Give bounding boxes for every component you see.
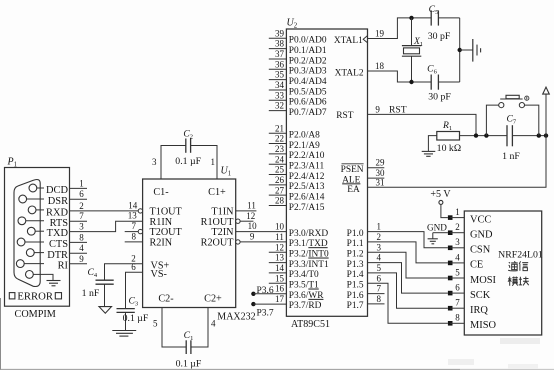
ground for R1 bbox=[422, 150, 436, 152]
DB9 pin circle right 2 bbox=[28, 206, 36, 214]
U2 pin 39 P0.0/AD0 bbox=[269, 37, 287, 39]
svg-text:RST: RST bbox=[389, 104, 407, 115]
svg-text:1: 1 bbox=[455, 207, 460, 217]
svg-text:PSEN: PSEN bbox=[341, 165, 364, 175]
svg-text:RI: RI bbox=[58, 260, 69, 271]
svg-text:8: 8 bbox=[79, 232, 84, 242]
U2 pin 34 P0.5/AD5 bbox=[269, 89, 287, 91]
svg-text:32: 32 bbox=[275, 101, 284, 111]
capacitor C3 bbox=[117, 308, 135, 310]
svg-text:P2.7/A15: P2.7/A15 bbox=[289, 203, 325, 213]
svg-text:27: 27 bbox=[275, 185, 285, 195]
svg-text:35: 35 bbox=[275, 70, 285, 80]
svg-text:39: 39 bbox=[275, 28, 285, 38]
svg-text:6: 6 bbox=[79, 189, 84, 199]
svg-text:C2-: C2- bbox=[158, 294, 174, 305]
svg-text:P1.4: P1.4 bbox=[347, 270, 364, 280]
svg-text:P3.3/INT1: P3.3/INT1 bbox=[289, 260, 329, 270]
U2 pin 21 P2.0/A8 bbox=[269, 132, 287, 134]
junction +5V rail bbox=[544, 133, 548, 137]
U2 pin 22 P2.1/A9 bbox=[269, 143, 287, 145]
NRF24L01 text kuai (Chinese) bbox=[519, 277, 529, 286]
wire P1.1 to NRF pin 4 bbox=[368, 242, 448, 263]
DB9 shell ground bbox=[44, 274, 53, 280]
svg-text:P1.3: P1.3 bbox=[347, 260, 364, 270]
svg-text:P3.1/TXD: P3.1/TXD bbox=[289, 239, 328, 249]
crystal X1 bbox=[402, 45, 421, 47]
DB9 shell bbox=[14, 179, 40, 286]
svg-text:21: 21 bbox=[275, 123, 284, 133]
svg-text:P1.6: P1.6 bbox=[347, 291, 364, 301]
svg-text:6: 6 bbox=[131, 262, 136, 272]
power +5V arrow bbox=[545, 94, 547, 136]
wire XTAL1 pin 19 to crystal bbox=[368, 18, 460, 39]
ERROR indicator right square bbox=[55, 293, 61, 299]
svg-text:P0.1/AD1: P0.1/AD1 bbox=[289, 46, 327, 56]
wire RST pin 9 to node bbox=[368, 114, 477, 135]
svg-text:CSN: CSN bbox=[470, 245, 491, 256]
U2 pin 15 P3.5 bbox=[269, 282, 287, 284]
svg-text:P2.3/A11: P2.3/A11 bbox=[289, 161, 325, 171]
U2 pin 33 P0.6/AD6 bbox=[269, 99, 287, 101]
svg-text:0.1 µF: 0.1 µF bbox=[175, 156, 201, 167]
svg-text:16: 16 bbox=[275, 284, 285, 294]
NRF pin 2 GND bbox=[448, 230, 453, 235]
node P3.6 bbox=[251, 292, 255, 296]
svg-text:GND: GND bbox=[427, 223, 447, 233]
svg-text:0.1 µF: 0.1 µF bbox=[123, 313, 149, 324]
svg-text:7: 7 bbox=[79, 211, 84, 221]
svg-text:4: 4 bbox=[377, 253, 382, 263]
svg-text:P2.2/A10: P2.2/A10 bbox=[289, 151, 325, 161]
svg-text:P2.6/A14: P2.6/A14 bbox=[289, 192, 325, 202]
U2 pin 30 ALE stub bbox=[368, 177, 385, 179]
svg-text:4: 4 bbox=[79, 243, 84, 253]
node P3.7 bbox=[251, 302, 255, 306]
wire R1 to C7 and +5V rail bbox=[460, 135, 508, 137]
U2 pin 38 P0.1/AD1 bbox=[269, 48, 287, 50]
wire R1 left lead to ground bbox=[428, 136, 436, 152]
svg-text:11: 11 bbox=[247, 200, 256, 210]
svg-text:7: 7 bbox=[132, 221, 137, 231]
svg-text:P3.6: P3.6 bbox=[257, 286, 274, 296]
svg-text:3: 3 bbox=[79, 222, 84, 232]
U1 pin 8 R2IN stub bbox=[125, 241, 143, 243]
NRF24L01 text mo (Chinese) bbox=[508, 277, 518, 286]
svg-text:CE: CE bbox=[470, 260, 483, 271]
DB9 pin circle right 4 bbox=[26, 249, 34, 257]
svg-text:38: 38 bbox=[275, 39, 285, 49]
module NRF24L01 box bbox=[464, 211, 541, 335]
wire P1.5 to NRF pin 8 bbox=[368, 283, 448, 323]
svg-text:9: 9 bbox=[375, 104, 380, 114]
svg-text:1: 1 bbox=[377, 222, 382, 232]
U2 pin 27 P2.6/A14 bbox=[269, 194, 287, 196]
U1 pin 14 T1OUT bubble bbox=[138, 209, 142, 213]
svg-text:+5 V: +5 V bbox=[430, 189, 451, 200]
junction to crystal ground bbox=[458, 48, 462, 52]
svg-text:33: 33 bbox=[275, 90, 285, 100]
wire C1 to U1 pin 4 bbox=[191, 308, 208, 348]
svg-text:4: 4 bbox=[455, 252, 460, 262]
wire RXD to T1OUT pin 14 bbox=[70, 210, 139, 212]
wire VS+ pin 2 to C4 bbox=[105, 264, 143, 280]
svg-text:P2.5/A13: P2.5/A13 bbox=[289, 182, 325, 192]
DB9 pin circle left 1 bbox=[19, 195, 27, 203]
junction bottom of X1 bbox=[409, 80, 413, 84]
U2 pin 29 PSEN stub bbox=[368, 167, 385, 169]
svg-text:P0.5/AD5: P0.5/AD5 bbox=[289, 87, 327, 97]
svg-text:P2.1/A9: P2.1/A9 bbox=[289, 141, 320, 151]
svg-text:12: 12 bbox=[275, 242, 284, 252]
svg-text:8: 8 bbox=[132, 231, 137, 241]
DB9 pin circle left 2 bbox=[18, 217, 26, 225]
svg-text:P3.0/RXD: P3.0/RXD bbox=[289, 229, 329, 239]
svg-text:6: 6 bbox=[377, 273, 382, 283]
wire U1 pin 3 to C2 bbox=[161, 146, 186, 180]
svg-text:8: 8 bbox=[377, 294, 382, 304]
U2 pin 8 P1.7 stub bbox=[368, 303, 385, 305]
svg-text:8: 8 bbox=[455, 313, 460, 323]
scan artifact bottom edge bbox=[0, 368, 460, 370]
svg-text:4: 4 bbox=[211, 319, 216, 329]
junction top of X1 bbox=[409, 16, 413, 20]
svg-text:34: 34 bbox=[275, 80, 285, 90]
svg-text:26: 26 bbox=[275, 175, 285, 185]
svg-text:10: 10 bbox=[248, 221, 258, 231]
DB9 pin circle right 3 bbox=[27, 227, 35, 235]
svg-text:P0.0/AD0: P0.0/AD0 bbox=[289, 36, 327, 46]
svg-text:ALE: ALE bbox=[342, 175, 360, 185]
svg-text:31: 31 bbox=[376, 177, 385, 187]
wire VS- pin 6 to C3 bbox=[126, 272, 143, 308]
svg-text:P0.2/AD2: P0.2/AD2 bbox=[289, 56, 327, 66]
U2 pin 26 P2.5/A13 bbox=[269, 184, 287, 186]
svg-text:XTAL1: XTAL1 bbox=[334, 36, 363, 46]
svg-text:3: 3 bbox=[377, 242, 382, 252]
IC U2 AT89C51 box bbox=[286, 29, 367, 316]
capacitor C5 bbox=[431, 10, 438, 25]
svg-text:MOSI: MOSI bbox=[470, 275, 497, 286]
U1 pin 7 T2OUT bubble and stub bbox=[138, 229, 142, 233]
NRF pin 8 MISO bbox=[448, 321, 453, 326]
svg-text:5: 5 bbox=[377, 263, 382, 273]
svg-text:MAX232: MAX232 bbox=[217, 312, 255, 323]
U2 pin 14 P3.4 bbox=[269, 272, 287, 274]
scan artifact faint smudges bottom right bbox=[500, 338, 540, 344]
junction RST/R1 bbox=[474, 133, 478, 137]
svg-text:1: 1 bbox=[211, 157, 216, 167]
svg-text:18: 18 bbox=[375, 61, 385, 71]
svg-text:VS-: VS- bbox=[151, 269, 168, 280]
svg-text:30 pF: 30 pF bbox=[428, 92, 451, 103]
wire P1.3 to NRF pin 6 bbox=[368, 263, 448, 294]
U2 pin 13 P3.3 bbox=[269, 262, 287, 264]
push button marker bbox=[525, 96, 529, 100]
svg-text:CTS: CTS bbox=[49, 239, 68, 250]
svg-text:1: 1 bbox=[79, 178, 84, 188]
svg-text:14: 14 bbox=[128, 200, 138, 210]
ground for C3 bbox=[112, 330, 136, 332]
svg-text:C1-: C1- bbox=[153, 187, 169, 198]
svg-text:P3.4/T0: P3.4/T0 bbox=[289, 270, 319, 280]
U2 pin 28 P2.7/A15 bbox=[269, 205, 287, 207]
capacitor C2 bbox=[185, 139, 187, 153]
NRF pin 3 CSN bbox=[448, 246, 453, 251]
NRF pin 7 IRQ bbox=[448, 306, 453, 311]
svg-text:30: 30 bbox=[376, 168, 386, 178]
NRF24L01 text xin (Chinese) bbox=[519, 261, 528, 270]
svg-text:P1.7: P1.7 bbox=[347, 301, 364, 311]
svg-text:P3.7/RD: P3.7/RD bbox=[289, 301, 322, 311]
svg-text:DTR: DTR bbox=[47, 250, 68, 261]
svg-text:13: 13 bbox=[275, 253, 285, 263]
scan artifact left edge bbox=[0, 298, 2, 370]
NRF pin 6 SCK bbox=[448, 291, 453, 296]
svg-text:7: 7 bbox=[455, 298, 460, 308]
svg-text:RTS: RTS bbox=[50, 218, 69, 229]
capacitor C7 bbox=[506, 125, 508, 146]
ground arrow for C4 bbox=[99, 307, 112, 314]
U2 pin 25 P2.4/A12 bbox=[269, 174, 287, 176]
svg-text:DSR: DSR bbox=[48, 196, 68, 207]
svg-text:XTAL2: XTAL2 bbox=[335, 69, 364, 79]
svg-text:1 nF: 1 nF bbox=[82, 288, 100, 299]
svg-text:12: 12 bbox=[246, 211, 255, 221]
svg-text:P0.6/AD6: P0.6/AD6 bbox=[289, 98, 327, 108]
svg-text:22: 22 bbox=[275, 134, 284, 144]
wire EA pin 31 to +5V rail bbox=[368, 136, 547, 188]
svg-text:TXD: TXD bbox=[47, 228, 69, 239]
U2 pin 12 P3.2 bbox=[269, 251, 287, 253]
wire C2 to U1 pin 1 bbox=[191, 146, 217, 180]
svg-text:2: 2 bbox=[455, 222, 460, 232]
svg-text:15: 15 bbox=[275, 273, 285, 283]
svg-text:9: 9 bbox=[250, 231, 255, 241]
capacitor C4 bbox=[96, 279, 114, 281]
svg-text:1 nF: 1 nF bbox=[502, 151, 520, 162]
svg-text:MISO: MISO bbox=[470, 320, 496, 331]
U2 pin 7 P1.6 stub bbox=[368, 293, 385, 295]
svg-text:P0.4/AD4: P0.4/AD4 bbox=[289, 77, 327, 87]
svg-text:P3.5/T1: P3.5/T1 bbox=[289, 281, 319, 291]
U2 XTAL1 clock marker bbox=[363, 36, 367, 43]
U2 pin 37 P0.2/AD2 bbox=[269, 58, 287, 60]
NRF24L01 text tong (Chinese) bbox=[508, 261, 518, 271]
svg-text:GND: GND bbox=[470, 230, 493, 241]
ERROR indicator left square bbox=[9, 293, 15, 299]
svg-text:P2.0/A8: P2.0/A8 bbox=[289, 131, 320, 141]
svg-text:P3.7: P3.7 bbox=[257, 308, 274, 318]
svg-text:25: 25 bbox=[275, 165, 285, 175]
NRF pin 4 CE bbox=[448, 261, 453, 266]
svg-text:DCD: DCD bbox=[46, 185, 68, 196]
svg-text:37: 37 bbox=[275, 49, 285, 59]
junction button right bbox=[537, 133, 541, 137]
svg-text:C2+: C2+ bbox=[204, 294, 222, 305]
svg-text:10 kΩ: 10 kΩ bbox=[437, 143, 461, 154]
svg-text:P1.0: P1.0 bbox=[347, 229, 364, 239]
wire P1.2 to NRF pin 5 bbox=[368, 252, 448, 278]
svg-text:R2IN: R2IN bbox=[150, 238, 173, 249]
connector P1 COMPIM box bbox=[5, 168, 70, 307]
svg-text:P3.2/INT0: P3.2/INT0 bbox=[289, 250, 329, 260]
svg-text:5: 5 bbox=[153, 319, 158, 329]
svg-text:0.1 µF: 0.1 µF bbox=[176, 359, 202, 370]
svg-text:EA: EA bbox=[347, 185, 360, 195]
capacitor C6 bbox=[431, 75, 438, 90]
svg-text:VCC: VCC bbox=[470, 214, 491, 225]
U2 pin 32 P0.7/AD7 bbox=[269, 110, 287, 112]
svg-text:SCK: SCK bbox=[470, 290, 491, 301]
svg-text:30 pF: 30 pF bbox=[428, 31, 451, 42]
svg-text:13: 13 bbox=[128, 211, 138, 221]
capacitor C1 bbox=[185, 340, 187, 354]
svg-text:11: 11 bbox=[275, 232, 284, 242]
svg-text:29: 29 bbox=[376, 158, 386, 168]
svg-text:23: 23 bbox=[275, 144, 285, 154]
svg-text:P1.2: P1.2 bbox=[347, 250, 364, 260]
NRF pin 5 MOSI bbox=[448, 276, 453, 281]
resistor R1 bbox=[437, 132, 460, 141]
wire TXD to R1IN pin 13 bbox=[70, 221, 143, 231]
svg-text:R1OUT: R1OUT bbox=[201, 217, 235, 228]
U2 pin 23 P2.2/A10 bbox=[269, 153, 287, 155]
svg-text:NRF24L01: NRF24L01 bbox=[498, 250, 543, 261]
svg-text:17: 17 bbox=[275, 294, 285, 304]
wire right side of crystal loop bbox=[459, 18, 461, 82]
IC U1 MAX232 box bbox=[143, 179, 236, 308]
wire P1.4 to NRF pin 7 bbox=[368, 273, 448, 308]
svg-text:R1IN: R1IN bbox=[150, 217, 173, 228]
svg-text:C1+: C1+ bbox=[208, 187, 226, 198]
svg-text:9: 9 bbox=[79, 254, 84, 264]
svg-text:14: 14 bbox=[275, 263, 285, 273]
junction button left bbox=[484, 133, 488, 137]
U1 pin 12 R1OUT bubble and stub bbox=[236, 219, 240, 223]
svg-text:6: 6 bbox=[455, 283, 460, 293]
U2 pin 36 P0.3/AD3 bbox=[269, 68, 287, 70]
svg-text:2: 2 bbox=[79, 201, 84, 211]
svg-text:7: 7 bbox=[377, 284, 382, 294]
push button S1 bbox=[486, 105, 498, 136]
svg-text:COMPIM: COMPIM bbox=[15, 309, 56, 320]
svg-text:P0.7/AD7: P0.7/AD7 bbox=[289, 108, 327, 118]
DB9 pin circle right 1 bbox=[29, 184, 37, 192]
svg-text:RST: RST bbox=[336, 111, 353, 121]
DB9 pin circle left 4 bbox=[16, 260, 24, 268]
svg-text:R2OUT: R2OUT bbox=[201, 238, 235, 249]
svg-text:P1.1: P1.1 bbox=[347, 239, 364, 249]
U2 pin 24 P2.3/A11 bbox=[269, 163, 287, 165]
svg-text:10: 10 bbox=[275, 222, 285, 232]
svg-text:IRQ: IRQ bbox=[470, 305, 488, 316]
svg-text:28: 28 bbox=[275, 196, 285, 206]
svg-text:5: 5 bbox=[455, 267, 460, 277]
svg-text:24: 24 bbox=[275, 154, 285, 164]
wire R2OUT pin 9 to U2 P3.1 bbox=[236, 240, 240, 244]
svg-text:19: 19 bbox=[375, 29, 385, 39]
svg-text:ERROR: ERROR bbox=[17, 291, 54, 303]
svg-text:P0.3/AD3: P0.3/AD3 bbox=[289, 67, 327, 77]
svg-text:36: 36 bbox=[275, 59, 285, 69]
wire P1.0 to NRF pin 3 bbox=[368, 232, 448, 248]
wire XTAL2 pin 18 to crystal bbox=[368, 71, 460, 82]
U2 pin 35 P0.4/AD4 bbox=[269, 79, 287, 81]
DB9 pin circle right 5 bbox=[26, 271, 34, 279]
svg-text:3: 3 bbox=[152, 157, 157, 167]
svg-text:P2.4/A12: P2.4/A12 bbox=[289, 172, 325, 182]
svg-text:P3.6/WR: P3.6/WR bbox=[289, 291, 324, 301]
DB9 pin circle left 3 bbox=[17, 238, 25, 246]
svg-text:AT89C51: AT89C51 bbox=[291, 319, 330, 330]
wire T2IN pin 10 to U2 P3.0 bbox=[236, 231, 287, 233]
svg-text:P1.5: P1.5 bbox=[347, 281, 364, 291]
svg-text:3: 3 bbox=[455, 237, 460, 247]
wire U1 pin 5 to C1 bbox=[162, 308, 186, 348]
U1 pin 11 T1IN stub bbox=[236, 210, 257, 212]
NRF pin 1 VCC bbox=[448, 215, 453, 220]
ground for crystal (right facing) bbox=[472, 39, 474, 62]
svg-text:2: 2 bbox=[377, 232, 382, 242]
